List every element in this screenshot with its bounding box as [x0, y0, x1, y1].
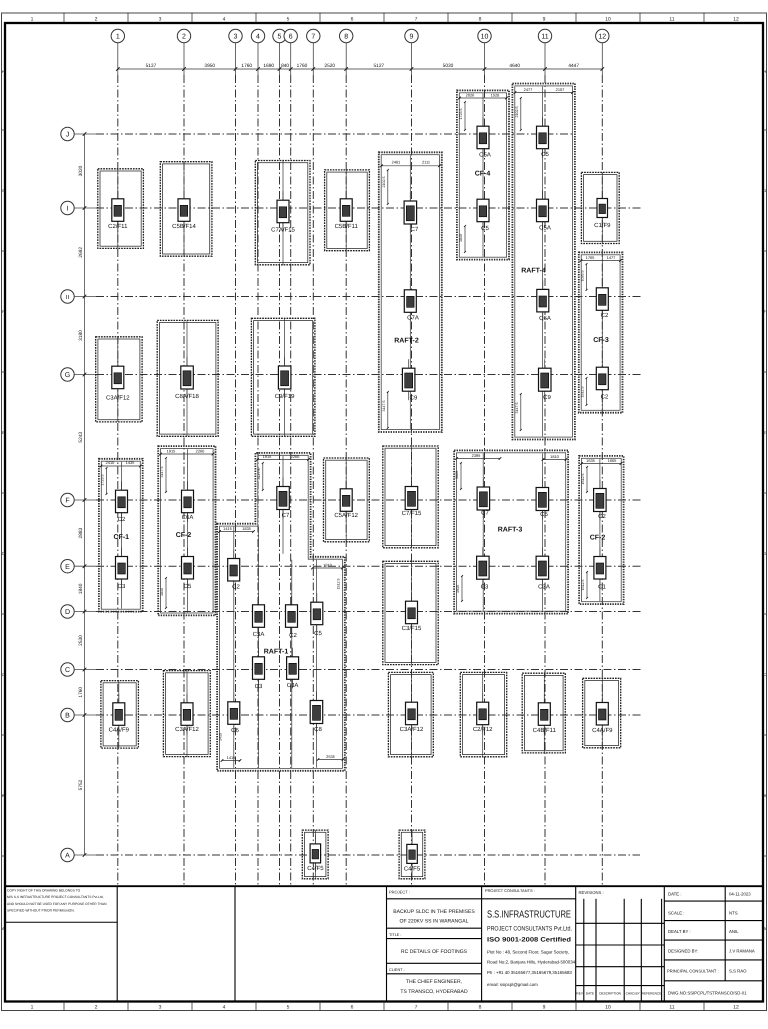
svg-text:E: E	[763, 430, 766, 435]
column C1 (CF-2 right)	[594, 548, 607, 591]
svg-text:H: H	[2, 69, 5, 74]
raft outline CF-4	[457, 90, 509, 259]
svg-text:3147.5: 3147.5	[160, 467, 164, 478]
column C2 (CF-3 top)	[596, 279, 609, 319]
svg-text:REFERENCE: REFERENCE	[642, 992, 662, 996]
svg-text:H: H	[763, 69, 766, 74]
svg-text:3020: 3020	[78, 165, 84, 176]
svg-text:REV: REV	[576, 992, 583, 996]
svg-text:DWG.NO:SSIPCPL/TSTRANSCO/SD-01: DWG.NO:SSIPCPL/TSTRANSCO/SD-01	[668, 991, 747, 996]
svg-text:1512.5: 1512.5	[337, 579, 341, 590]
title block frame lines	[387, 886, 764, 1001]
svg-text:1: 1	[31, 1005, 34, 1011]
raft outline CF-3	[579, 252, 623, 412]
svg-text:C5: C5	[314, 630, 322, 637]
column C6A (RAFT-4)	[537, 280, 551, 322]
grid line 12 (vertical)	[601, 75, 603, 886]
label RAFT-1	[264, 649, 289, 656]
svg-text:10: 10	[481, 34, 489, 41]
svg-text:RAFT-3: RAFT-3	[498, 527, 523, 534]
grid line J (horizontal)	[96, 133, 574, 135]
column C5 (CF-2)	[182, 548, 194, 591]
footing C5B/F11	[325, 170, 370, 251]
svg-text:J: J	[66, 132, 70, 139]
svg-text:1915: 1915	[263, 454, 272, 459]
label RAFT-4	[521, 268, 546, 275]
svg-text:PRINCIPAL CONSULTANT :: PRINCIPAL CONSULTANT :	[667, 969, 719, 974]
svg-text:TS TRANSCO, HYDERABAD: TS TRANSCO, HYDERABAD	[400, 989, 468, 995]
RAFT-3 dimensions	[455, 453, 568, 602]
column C2 (CF-1)	[116, 481, 128, 523]
svg-text:1765: 1765	[586, 255, 595, 260]
svg-text:OF 220KV SS IN WARANGAL: OF 220KV SS IN WARANGAL	[400, 919, 469, 925]
footing C7/F15	[383, 446, 438, 548]
svg-text:C7/F15: C7/F15	[402, 510, 422, 517]
footing C2/F11	[98, 169, 144, 249]
svg-text:5: 5	[287, 1005, 290, 1011]
grid line A (horizontal)	[96, 854, 640, 856]
column C2 (CF-2 right)	[594, 480, 607, 521]
svg-text:DESIGNED BY:: DESIGNED BY:	[668, 949, 698, 954]
svg-text:1512.5: 1512.5	[581, 387, 585, 398]
svg-text:9: 9	[543, 1005, 546, 1011]
svg-text:S.S.INFRASTRUCTURE: S.S.INFRASTRUCTURE	[487, 910, 571, 921]
svg-text:C4A/F9: C4A/F9	[592, 727, 613, 734]
svg-text:5: 5	[287, 17, 290, 23]
svg-text:1840: 1840	[459, 234, 463, 242]
svg-text:1723.5: 1723.5	[101, 475, 105, 486]
svg-text:4: 4	[223, 1005, 226, 1011]
grid line C (horizontal)	[96, 669, 643, 671]
svg-text:C5: C5	[184, 583, 192, 590]
column C9 (RAFT-4)	[539, 359, 552, 401]
label CF-2 right	[590, 535, 606, 542]
svg-text:CF-1: CF-1	[114, 534, 130, 541]
svg-text:DATE: DATE	[586, 992, 594, 996]
svg-text:2102.5: 2102.5	[515, 107, 519, 118]
svg-text:BACKUP SLDC IN THE PREMISES: BACKUP SLDC IN THE PREMISES	[393, 909, 475, 915]
svg-text:2395: 2395	[472, 453, 481, 458]
title block top line	[5, 885, 763, 887]
CF-2 dimensions	[159, 448, 214, 609]
grid bubbles J-A (left)	[61, 127, 96, 861]
svg-text:G: G	[2, 188, 5, 193]
svg-text:J.V RAMANA: J.V RAMANA	[729, 949, 755, 954]
svg-text:C6: C6	[231, 727, 239, 734]
svg-text:1665: 1665	[608, 458, 617, 463]
footing C5B/F14	[160, 162, 212, 257]
svg-text:Road No:2, Banjara Hills, Hyde: Road No:2, Banjara Hills, Hyderabad-5000…	[487, 960, 576, 965]
grid line 1 (vertical)	[117, 75, 119, 886]
svg-text:11: 11	[669, 17, 674, 23]
svg-text:C5A/F12: C5A/F12	[334, 512, 358, 519]
svg-text:C3: C3	[481, 584, 489, 591]
svg-text:C3: C3	[118, 583, 126, 590]
column C2 (RAFT-1 row D)	[286, 596, 298, 639]
svg-text:C3A/F12: C3A/F12	[175, 726, 199, 733]
svg-text:C7: C7	[282, 512, 290, 519]
svg-text:1840: 1840	[160, 588, 164, 596]
svg-text:C2: C2	[601, 312, 609, 319]
svg-text:C3: C3	[255, 683, 263, 690]
grid line 3 (vertical)	[235, 75, 237, 886]
svg-text:C5A: C5A	[539, 225, 551, 232]
CF-2 right dimensions	[580, 458, 622, 599]
column C6A (CF-2)	[182, 481, 194, 522]
grid line 11 (vertical)	[544, 75, 546, 886]
svg-text:C4A/F9: C4A/F9	[109, 727, 130, 734]
svg-text:D: D	[65, 609, 70, 616]
svg-text:D: D	[763, 551, 766, 556]
svg-text:2: 2	[95, 17, 98, 23]
svg-text:I: I	[67, 206, 69, 213]
svg-text:6: 6	[351, 17, 354, 23]
svg-text:2: 2	[182, 34, 186, 41]
svg-text:4: 4	[223, 17, 226, 23]
grid line 9 (vertical)	[411, 75, 413, 886]
grid line I (horizontal)	[96, 207, 642, 209]
footing C9/F19	[251, 318, 315, 436]
svg-text:C6A: C6A	[182, 514, 194, 521]
svg-text:6: 6	[289, 34, 293, 41]
svg-text:4447: 4447	[568, 63, 579, 69]
svg-text:1760: 1760	[297, 63, 308, 69]
grid bubbles 1-12 (top)	[111, 29, 609, 75]
column C2 (RAFT-1 row E)	[228, 550, 241, 591]
svg-text:3: 3	[234, 34, 238, 41]
label CF-4	[475, 171, 491, 178]
svg-text:C5B/F14: C5B/F14	[172, 223, 196, 230]
footing C4A/F9	[583, 678, 621, 748]
svg-text:M/S S,S INFRASTRUCTURE PROJECT: M/S S,S INFRASTRUCTURE PROJECT CONSULTAN…	[7, 895, 104, 899]
svg-text:II: II	[66, 294, 70, 301]
svg-text:C1: C1	[598, 584, 606, 591]
svg-text:5030: 5030	[443, 63, 454, 69]
svg-text:B: B	[763, 793, 766, 798]
svg-text:1415: 1415	[219, 733, 223, 741]
grid line H (horizontal)	[96, 296, 642, 298]
svg-text:2260: 2260	[291, 454, 300, 459]
column C3A (RAFT-3)	[536, 547, 550, 590]
column C7 (RAFT-3)	[477, 478, 490, 519]
svg-text:3950: 3950	[204, 63, 215, 69]
svg-text:8: 8	[479, 17, 482, 23]
grid line 5 (vertical)	[279, 75, 281, 886]
svg-text:3147.5: 3147.5	[382, 401, 386, 412]
svg-text:C5A: C5A	[479, 152, 491, 159]
column C6 (RAFT-1 row B)	[228, 693, 240, 734]
column C5A (CF-4)	[477, 117, 491, 158]
svg-text:NTS: NTS	[729, 911, 738, 916]
svg-text:C3A/F12: C3A/F12	[400, 726, 424, 733]
copyright note block	[5, 886, 235, 1001]
footing C3A/F12	[388, 672, 433, 756]
svg-text:C4/F5: C4/F5	[404, 866, 421, 873]
svg-text:8: 8	[479, 1005, 482, 1011]
RAFT-4 dimensions	[514, 87, 574, 431]
svg-text:C4B/F11: C4B/F11	[533, 727, 557, 734]
svg-text:10: 10	[605, 1005, 611, 1011]
column C7 (RAFT-1)	[277, 478, 290, 520]
svg-text:Ph : +91 40 35165677,35165679: Ph : +91 40 35165677,35165679,35165683	[487, 970, 572, 975]
svg-text:5243: 5243	[78, 432, 84, 443]
top dimension line	[116, 63, 604, 71]
svg-text:C3A: C3A	[287, 682, 299, 689]
svg-text:C3/F15: C3/F15	[402, 625, 422, 632]
svg-text:3147.5: 3147.5	[515, 403, 519, 414]
label CF-1	[114, 534, 130, 541]
column C2 (CF-3 bottom)	[596, 358, 609, 400]
svg-text:Plot No : 48, Second Floor,: Plot No : 48, Second Floor, Sagar Societ…	[487, 950, 569, 955]
svg-text:RAFT-4: RAFT-4	[521, 268, 546, 275]
svg-text:A: A	[65, 853, 70, 860]
svg-text:email: ssipcpl@gmail.com: email: ssipcpl@gmail.com	[487, 982, 538, 987]
svg-text:1915: 1915	[456, 585, 460, 593]
svg-text:5: 5	[278, 34, 282, 41]
svg-text:1435: 1435	[126, 460, 135, 465]
column C7 (RAFT-2)	[404, 192, 419, 233]
grid line B (horizontal)	[96, 714, 643, 716]
svg-text:1528: 1528	[491, 92, 500, 97]
raft outline RAFT-4	[512, 84, 575, 440]
svg-text:2102.5: 2102.5	[382, 177, 386, 188]
grid line 10 (vertical)	[484, 75, 486, 886]
raft outline CF-2 (right)	[579, 456, 624, 604]
svg-text:C: C	[2, 672, 5, 677]
svg-text:G: G	[65, 372, 70, 379]
svg-text:G: G	[763, 188, 766, 193]
svg-text:3147.5: 3147.5	[257, 469, 261, 480]
svg-text:C4/F5: C4/F5	[307, 865, 324, 872]
svg-text:2535: 2535	[326, 754, 335, 759]
column C5 (RAFT-1 row D)	[311, 593, 323, 637]
label RAFT-2	[394, 338, 419, 345]
footing C2/F12	[460, 672, 506, 756]
svg-text:1760: 1760	[241, 63, 252, 69]
column C3A (RAFT-1 row C)	[287, 648, 299, 689]
svg-text:SPECIFIED WITHOUT PRIOR PERMIS: SPECIFIED WITHOUT PRIOR PERMISSION.	[7, 909, 75, 913]
svg-text:RAFT-2: RAFT-2	[394, 338, 419, 345]
svg-text:2410: 2410	[106, 460, 115, 465]
svg-text:C7A: C7A	[407, 315, 419, 322]
grid line F (horizontal)	[96, 499, 643, 501]
svg-text:C2: C2	[601, 394, 609, 401]
footing C3A/F12	[96, 337, 142, 422]
svg-text:C: C	[65, 667, 70, 674]
svg-text:2260: 2260	[196, 448, 205, 453]
svg-text:A: A	[2, 926, 5, 931]
svg-text:C9: C9	[543, 394, 551, 401]
raft outline RAFT-2	[379, 152, 442, 432]
svg-text:C7A/F15: C7A/F15	[271, 227, 295, 234]
svg-text:9: 9	[543, 17, 546, 23]
svg-text:C3A: C3A	[253, 631, 265, 638]
CF-3 dimensions	[580, 255, 622, 406]
svg-text:1: 1	[116, 34, 120, 41]
svg-text:4: 4	[256, 34, 260, 41]
CF-4 dimensions	[458, 92, 508, 253]
column C5 (RAFT-4)	[537, 117, 550, 158]
svg-text:5127: 5127	[374, 63, 385, 69]
svg-text:C5: C5	[481, 225, 489, 232]
svg-text:1026.5: 1026.5	[581, 271, 585, 282]
left dimension line	[78, 132, 87, 857]
svg-text:6: 6	[351, 1005, 354, 1011]
svg-text:CF-2: CF-2	[590, 535, 606, 542]
svg-text:10: 10	[605, 17, 611, 23]
svg-text:2692: 2692	[78, 247, 84, 258]
footing C4A/F9	[101, 681, 138, 749]
label CF-2	[176, 532, 192, 539]
svg-text:C2/F11: C2/F11	[108, 223, 128, 230]
svg-text:12: 12	[598, 34, 606, 41]
svg-text:3: 3	[159, 1005, 162, 1011]
svg-text:1415: 1415	[223, 526, 232, 531]
svg-text:SCALE :: SCALE :	[668, 911, 684, 916]
svg-text:7: 7	[415, 1005, 418, 1011]
svg-text:3180: 3180	[78, 330, 84, 341]
svg-text:A: A	[763, 926, 766, 931]
svg-text:C5B/F11: C5B/F11	[335, 223, 359, 230]
svg-text:TITLE :: TITLE :	[389, 933, 401, 937]
grid line E (horizontal)	[96, 565, 643, 567]
svg-text:1723.5: 1723.5	[459, 109, 463, 120]
column C5A (RAFT-4)	[537, 190, 551, 231]
footing C7A/F15	[255, 161, 310, 265]
svg-text:DEALT BY :: DEALT BY :	[668, 929, 691, 934]
svg-text:RC DETAILS OF FOOTINGS: RC DETAILS OF FOOTINGS	[401, 949, 468, 955]
svg-text:ANIL: ANIL	[729, 929, 739, 934]
svg-text:1: 1	[31, 17, 34, 23]
svg-text:RAFT-1: RAFT-1	[264, 649, 289, 656]
column C3 (RAFT-3)	[477, 547, 490, 590]
svg-text:1810: 1810	[550, 454, 559, 459]
svg-text:CHKD.BY: CHKD.BY	[626, 992, 641, 996]
footing C4/F5	[302, 830, 328, 879]
column C8 (RAFT-1 row B)	[310, 692, 323, 734]
svg-text:04-11-2023: 04-11-2023	[729, 892, 751, 897]
grid line 8 (vertical)	[345, 75, 347, 886]
raft outline RAFT-3	[454, 450, 568, 613]
grid line G (horizontal)	[96, 374, 642, 376]
svg-text:PROJECT CONSULTANTS :: PROJECT CONSULTANTS :	[485, 888, 535, 893]
svg-text:AND SHOULD NOT BE USED FOR ANY: AND SHOULD NOT BE USED FOR ANY PURPOSE O…	[7, 902, 107, 906]
svg-text:4640: 4640	[509, 63, 520, 69]
svg-text:CF-4: CF-4	[475, 171, 491, 178]
footing C3A/F12	[163, 671, 210, 757]
svg-text:THE CHIEF ENGINEER,: THE CHIEF ENGINEER,	[406, 979, 462, 985]
label RAFT-3	[498, 527, 523, 534]
svg-text:C9/F19: C9/F19	[275, 393, 295, 400]
label CF-3	[593, 337, 609, 344]
svg-text:2107: 2107	[556, 87, 565, 92]
svg-text:ISO 9001-2008 Certified: ISO 9001-2008 Certified	[487, 937, 571, 944]
svg-text:PROJECT :: PROJECT :	[389, 890, 410, 895]
svg-text:C7: C7	[411, 226, 419, 233]
svg-text:D: D	[2, 551, 5, 556]
CF-1 dimensions	[100, 460, 142, 495]
svg-text:DATE :: DATE :	[668, 892, 682, 897]
footing C4/F5	[399, 830, 425, 879]
svg-text:C2: C2	[289, 632, 297, 639]
svg-text:B: B	[65, 713, 70, 720]
svg-text:2481: 2481	[392, 159, 401, 164]
svg-text:C7: C7	[481, 510, 489, 517]
svg-text:9: 9	[410, 34, 414, 41]
svg-text:11: 11	[541, 34, 548, 41]
svg-text:CF-3: CF-3	[593, 337, 609, 344]
column C9 (RAFT-2)	[402, 359, 418, 401]
svg-text:CF-2: CF-2	[176, 532, 192, 539]
svg-text:CLIENT :: CLIENT :	[389, 968, 405, 972]
svg-text:3020: 3020	[455, 471, 459, 479]
svg-text:1915: 1915	[167, 448, 176, 453]
footing C5A/F12	[324, 458, 370, 542]
svg-text:1760: 1760	[78, 687, 84, 698]
svg-text:C5: C5	[540, 511, 548, 518]
svg-text:C2: C2	[598, 513, 606, 520]
grid line D (horizontal)	[96, 611, 643, 613]
svg-text:B: B	[2, 793, 5, 798]
svg-text:COPY RIGHT OF THIS DRAWING BEL: COPY RIGHT OF THIS DRAWING BELONGS TO	[7, 889, 81, 893]
svg-text:C5: C5	[541, 151, 549, 158]
column C7A (RAFT-2)	[404, 281, 419, 322]
column C5 (RAFT-3)	[536, 479, 549, 520]
grid line 7 (vertical)	[312, 75, 314, 886]
svg-text:S,S RAO: S,S RAO	[729, 969, 747, 974]
svg-text:840: 840	[281, 63, 289, 69]
svg-text:1415: 1415	[227, 755, 236, 760]
svg-text:5137: 5137	[146, 63, 157, 69]
grid line 4 (vertical)	[257, 75, 259, 886]
svg-text:8: 8	[344, 34, 348, 41]
svg-text:1477: 1477	[607, 255, 616, 260]
column C5 (CF-4)	[477, 190, 489, 232]
svg-text:C2: C2	[232, 584, 240, 591]
svg-text:1635: 1635	[586, 458, 595, 463]
column C3 (CF-1)	[116, 548, 128, 591]
svg-text:12: 12	[733, 1005, 739, 1011]
svg-text:3: 3	[159, 17, 162, 23]
svg-text:C3A/F12: C3A/F12	[106, 395, 130, 402]
svg-text:C8A/F18: C8A/F18	[175, 393, 199, 400]
svg-text:C8: C8	[314, 726, 322, 733]
grid line 2 (vertical)	[183, 75, 185, 886]
svg-text:C1/F9: C1/F9	[594, 222, 611, 229]
svg-text:2520: 2520	[324, 63, 335, 69]
svg-text:2026: 2026	[466, 92, 475, 97]
svg-text:7: 7	[415, 17, 418, 23]
svg-text:11: 11	[669, 1005, 674, 1011]
title block texts	[389, 888, 755, 996]
svg-text:2: 2	[95, 1005, 98, 1011]
footing C3/F15	[383, 561, 438, 664]
svg-text:1512.5: 1512.5	[581, 474, 585, 485]
svg-text:1512.5: 1512.5	[581, 580, 585, 591]
svg-text:2530: 2530	[78, 635, 84, 646]
raft outline CF-2	[158, 446, 215, 615]
svg-text:C9: C9	[410, 395, 418, 402]
svg-text:DESCRIPTION: DESCRIPTION	[599, 992, 621, 996]
svg-text:2883: 2883	[78, 527, 84, 538]
svg-text:C6A: C6A	[539, 315, 551, 322]
svg-text:C2/F12: C2/F12	[473, 726, 493, 733]
grid line 6 (vertical)	[290, 75, 292, 886]
footing C8A/F18	[157, 320, 218, 436]
svg-text:1835: 1835	[242, 526, 251, 531]
raft outline RAFT-1	[217, 453, 345, 771]
svg-text:1810: 1810	[323, 562, 332, 567]
